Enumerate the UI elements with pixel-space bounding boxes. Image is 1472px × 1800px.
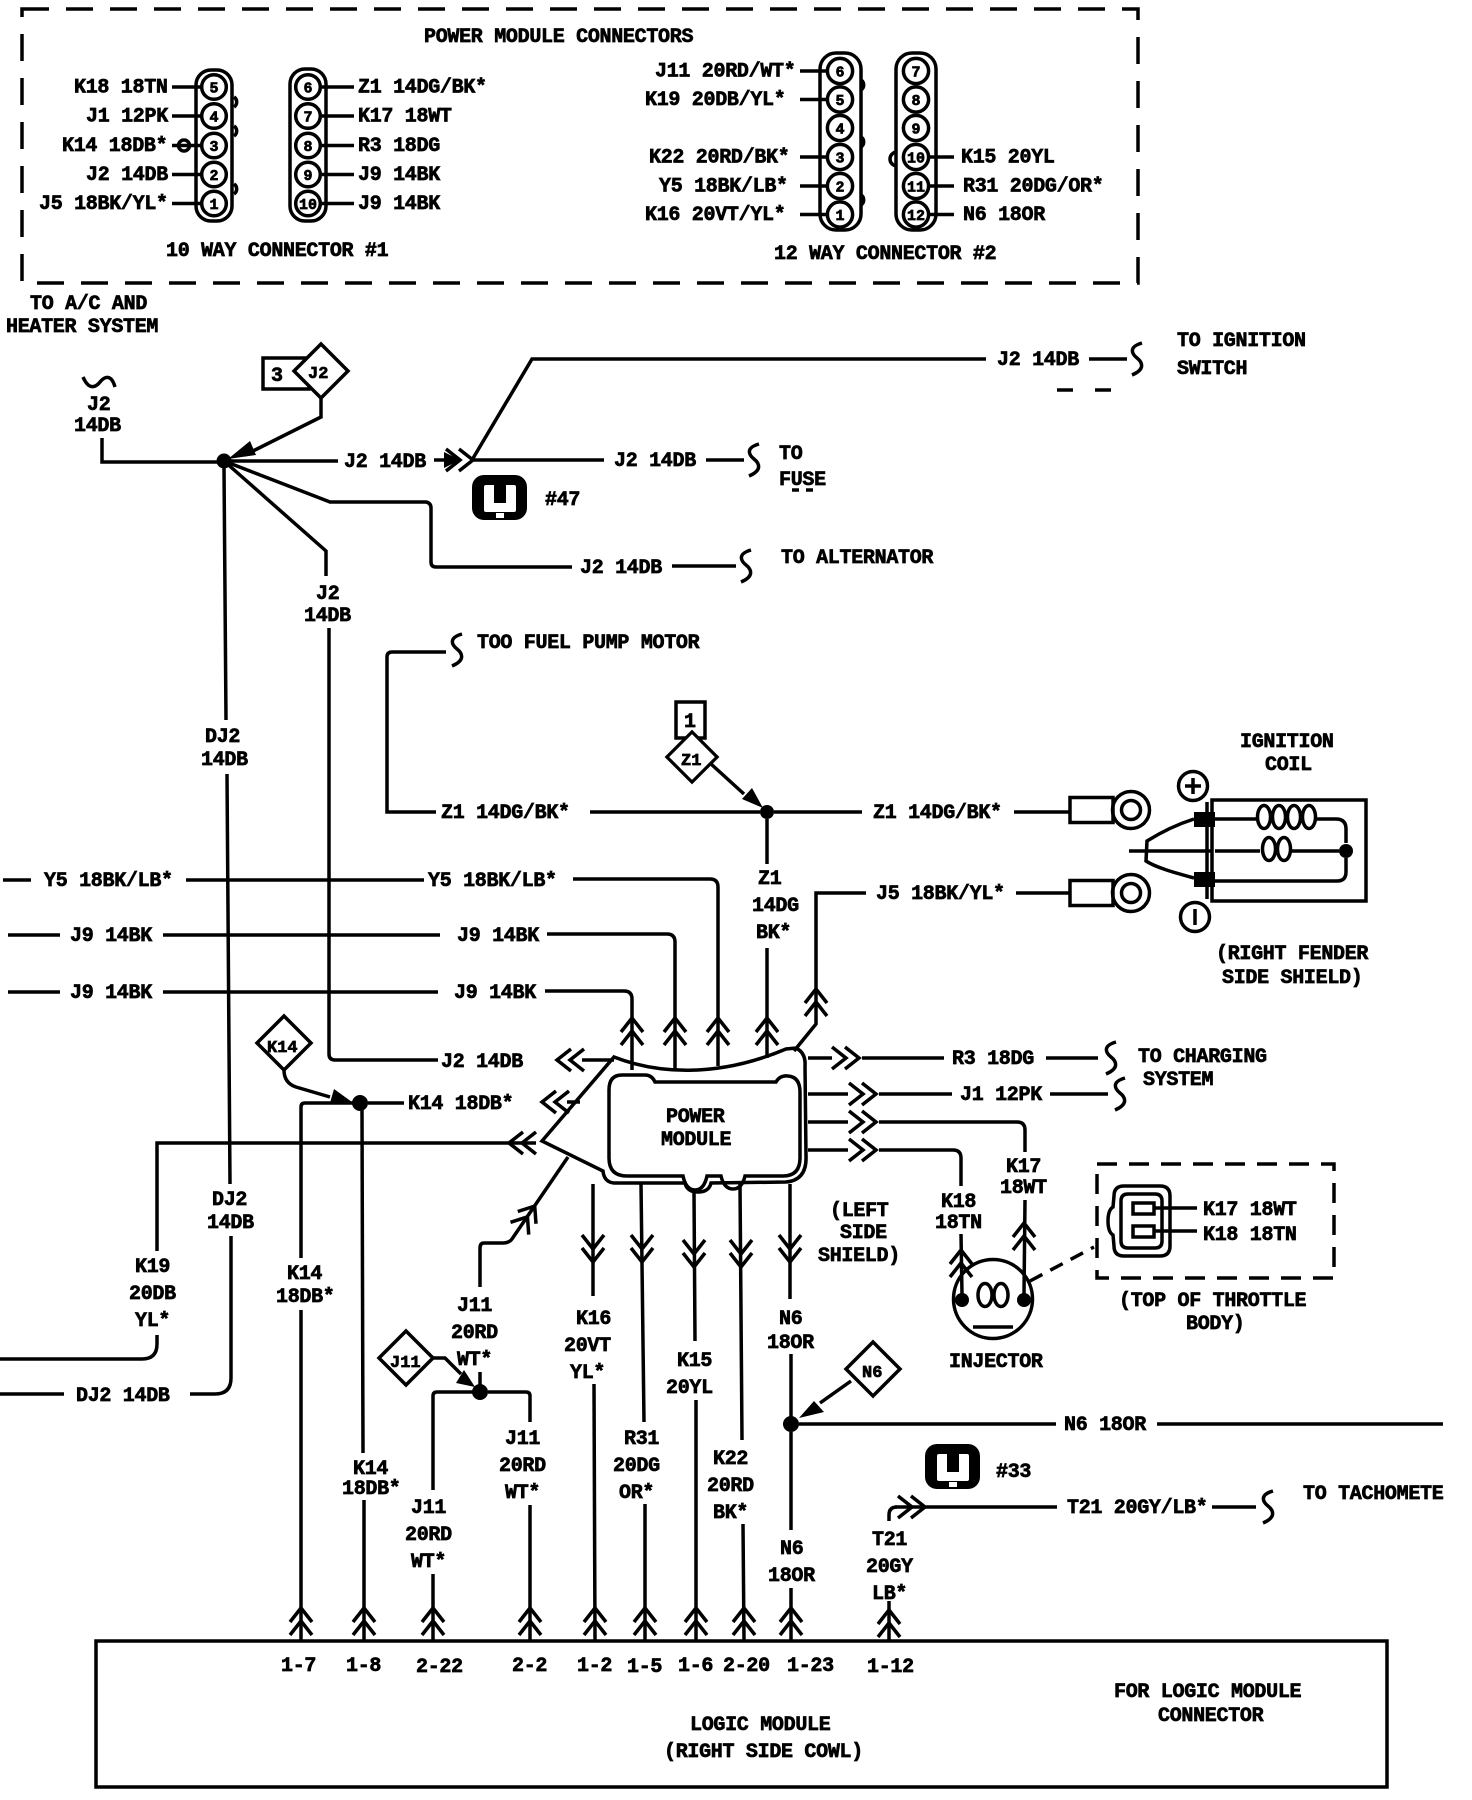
ignition coil minus terminal [1181, 903, 1210, 932]
wire Y5 row [3, 878, 31, 882]
chevron J11 2-22 at logic module [422, 1608, 444, 1635]
label T21 20GY/LB* [1067, 1497, 1207, 1520]
label J9 14BK [358, 193, 440, 216]
svg-text:K19 20DB/YL*: K19 20DB/YL* [645, 89, 785, 112]
svg-text:20YL: 20YL [666, 1377, 713, 1400]
wire Z1 label to junction [590, 810, 760, 814]
wire K14 junction to module [368, 1101, 404, 1105]
label #33 [996, 1461, 1031, 1484]
svg-text:J2 14DB: J2 14DB [580, 557, 662, 580]
label N6 18OR (above junction) [767, 1308, 814, 1355]
svg-text:5: 5 [836, 93, 845, 110]
label Z1 14DG/BK* (left) [441, 802, 570, 825]
wire junction to alternator [224, 461, 572, 567]
wire + break to ignition switch [1089, 343, 1142, 375]
pin 1-6 [678, 1655, 713, 1678]
svg-text:N6: N6 [862, 1364, 882, 1383]
wire + break R3 to charging [1046, 1042, 1116, 1074]
label K15 20YL [961, 147, 1055, 170]
power module outer shell [542, 1048, 806, 1192]
svg-text:R3 18DG: R3 18DG [952, 1048, 1034, 1071]
svg-text:K14 18DB*: K14 18DB* [62, 135, 167, 158]
stray dashes under FUSE [792, 488, 813, 492]
label T21 20GY LB* (column) [866, 1529, 913, 1606]
connector C1 strip A (pins 5-1) [196, 70, 237, 221]
label R3 18DG [358, 135, 440, 158]
connector C1 strip B (pins 6-10) [290, 69, 326, 221]
svg-text:18DB*: 18DB* [342, 1478, 401, 1501]
svg-text:T21: T21 [872, 1529, 907, 1552]
wire K14 left branch down (pin 1-7) [301, 1103, 360, 1258]
svg-text:J9 14BK: J9 14BK [70, 925, 152, 948]
dashed enclosure throttle body [1097, 1164, 1334, 1278]
pin 2-20 [723, 1655, 770, 1678]
pin 11 lead [930, 184, 954, 188]
svg-text:J1 12PK: J1 12PK [86, 106, 168, 129]
svg-text:12: 12 [907, 208, 925, 225]
wire J9 row2 mid [163, 990, 438, 994]
chevron K14 1-7 at logic module [290, 1608, 312, 1635]
pin 1-2 [577, 1655, 612, 1678]
wire R31 lower [643, 1504, 647, 1640]
label K14 18DB* (branch 1-7) [276, 1263, 335, 1309]
svg-text:20RD: 20RD [707, 1475, 754, 1498]
label J5 18BK/YL* [876, 883, 1005, 906]
locator square 3 [263, 358, 309, 389]
wire + break to fuse [706, 444, 759, 476]
note TO TACHOMETER [1303, 1483, 1444, 1506]
locator square 1 [676, 702, 705, 738]
pin 6 lead [800, 69, 827, 73]
svg-text:HEATER SYSTEM: HEATER SYSTEM [6, 316, 158, 339]
note LEFT SIDE SHIELD [818, 1200, 900, 1268]
label K18 18TN (column) [935, 1191, 982, 1235]
svg-text:R3 18DG: R3 18DG [358, 135, 440, 158]
svg-text:POWER: POWER [666, 1106, 725, 1129]
pin 8 lead wire [322, 144, 354, 148]
svg-text:N6: N6 [780, 1538, 803, 1561]
injector terminals [955, 1293, 1031, 1307]
wire DJ2 upper [224, 468, 226, 720]
svg-text:J5 18BK/YL*: J5 18BK/YL* [876, 883, 1005, 906]
pin 1-8 [346, 1655, 381, 1678]
svg-text:18OR: 18OR [767, 1332, 814, 1355]
chevron J5 [805, 989, 827, 1016]
wire J2 14DB right of junction [231, 459, 338, 463]
pin 5 lead wire [172, 85, 201, 89]
svg-text:14DB: 14DB [207, 1212, 254, 1235]
wire K14 left branch lower [299, 1310, 303, 1640]
wire K19 exit left [0, 1335, 157, 1359]
wire K17 to injector column [879, 1122, 1025, 1152]
wire T21 horizontal [895, 1505, 1057, 1509]
svg-text:6: 6 [304, 81, 313, 98]
wire diamond N6 to junction with arrow [799, 1381, 851, 1418]
svg-text:(TOP OF THROTTLE: (TOP OF THROTTLE [1119, 1290, 1307, 1313]
label J2 14DB (feeder) [304, 583, 351, 628]
svg-text:POWER MODULE CONNECTORS: POWER MODULE CONNECTORS [424, 26, 693, 49]
wire N6 lower to logic module [789, 1588, 793, 1640]
pin 10 lead wire [322, 202, 354, 206]
svg-text:20RD: 20RD [451, 1322, 498, 1345]
svg-text:J11: J11 [505, 1428, 540, 1451]
label N6 18OR (line) [1064, 1414, 1146, 1437]
pin 1 lead [800, 213, 827, 217]
chevron K19 out of module [509, 1132, 536, 1154]
ignition coil secondary winding [1215, 838, 1339, 861]
wire J1 [879, 1092, 952, 1096]
svg-text:J11 20RD/WT*: J11 20RD/WT* [655, 61, 795, 84]
lead K18 throttle [1154, 1229, 1197, 1233]
svg-text:7: 7 [304, 110, 313, 127]
pin 1-5 [627, 1656, 662, 1679]
injector coil [973, 1284, 1013, 1328]
node J2 junction [217, 454, 232, 469]
svg-text:18OR: 18OR [768, 1565, 815, 1588]
svg-text:K14: K14 [267, 1039, 298, 1058]
svg-text:5: 5 [210, 81, 219, 98]
svg-text:SWITCH: SWITCH [1177, 358, 1247, 381]
pin 1-23 [787, 1655, 834, 1678]
svg-text:N6 18OR: N6 18OR [963, 204, 1045, 227]
wire N6 long right (thick) [1157, 1422, 1443, 1426]
svg-text:DJ2: DJ2 [205, 726, 240, 749]
svg-text:J2 14DB: J2 14DB [86, 164, 168, 187]
pin numbers C2B [907, 65, 925, 226]
svg-text:CONNECTOR: CONNECTOR [1158, 1705, 1264, 1728]
svg-text:J9 14BK: J9 14BK [454, 982, 536, 1005]
label J9 14BK [358, 164, 440, 187]
svg-text:TOO FUEL PUMP MOTOR: TOO FUEL PUMP MOTOR [477, 632, 700, 655]
svg-text:K15 20YL: K15 20YL [961, 147, 1055, 170]
wire coil bottom loop [1215, 858, 1346, 881]
svg-text:8: 8 [304, 139, 313, 156]
svg-text:K14 18DB*: K14 18DB* [408, 1093, 513, 1116]
svg-text:J5 18BK/YL*: J5 18BK/YL* [39, 193, 168, 216]
label Y5 18BK/LB* (left) [44, 870, 173, 893]
svg-text:J2 14DB: J2 14DB [441, 1051, 523, 1074]
lead K17 throttle [1154, 1206, 1197, 1210]
pin 3 lead wire with loop [172, 140, 201, 151]
svg-text:OR*: OR* [619, 1482, 654, 1505]
ring terminal J5 [1070, 875, 1150, 912]
label K17 18WT [358, 106, 452, 129]
wire N6 column from module [788, 1184, 792, 1299]
svg-text:Y5 18BK/LB*: Y5 18BK/LB* [659, 176, 788, 199]
node coil junction [1339, 844, 1353, 858]
chevron J9 row1 [664, 1018, 686, 1045]
svg-text:1: 1 [836, 208, 845, 225]
wire K15 lower [694, 1400, 698, 1640]
svg-text:K19: K19 [135, 1256, 170, 1279]
label J5 18BK/YL* [39, 193, 168, 216]
chevron K18 up [950, 1250, 972, 1277]
svg-text:LOGIC MODULE: LOGIC MODULE [690, 1714, 831, 1737]
svg-text:SYSTEM: SYSTEM [1143, 1069, 1214, 1092]
svg-text:3: 3 [271, 365, 283, 388]
svg-text:SIDE SHIELD): SIDE SHIELD) [1222, 967, 1362, 990]
label DJ2 14DB (exit) [76, 1385, 170, 1408]
wire DJ2 middle [227, 774, 230, 1184]
label K19 20DB/YL* [645, 89, 785, 112]
svg-text:TO CHARGING: TO CHARGING [1138, 1046, 1267, 1069]
svg-text:3: 3 [210, 139, 219, 156]
svg-text:6: 6 [836, 65, 845, 82]
ring terminal Z1 [1070, 792, 1150, 829]
svg-text:18DB*: 18DB* [276, 1286, 335, 1309]
chevron R3 right [832, 1047, 859, 1069]
wire J2 feeder vertical [329, 628, 438, 1060]
svg-text:T21 20GY/LB*: T21 20GY/LB* [1067, 1497, 1207, 1520]
svg-text:10: 10 [907, 151, 925, 168]
wire R31 column (pin 1-5) [641, 1184, 644, 1422]
note TOO FUEL PUMP MOTOR [477, 632, 700, 655]
pin 9 lead wire [322, 173, 354, 177]
label J2 14DB (ignition) [997, 349, 1079, 372]
chevron T21 right [898, 1496, 925, 1518]
wire N6 below junction [789, 1432, 793, 1530]
label J2 14DB (module input) [441, 1051, 523, 1074]
wire J2 stub to junction [102, 438, 217, 462]
label K22 20RD BK* [707, 1448, 754, 1525]
svg-text:J2 14DB: J2 14DB [344, 451, 426, 474]
chevron N6 down [779, 1235, 801, 1262]
wire J9 row 1 [8, 933, 60, 937]
label R31 20DG/OR* [963, 176, 1103, 199]
svg-text:1-23: 1-23 [787, 1655, 834, 1678]
pin 7 lead wire [322, 114, 354, 118]
label K15 20YL [666, 1350, 713, 1400]
wire diamond K14 to junction with arrow [284, 1070, 352, 1103]
label J1 12PK [86, 106, 168, 129]
svg-text:8: 8 [912, 93, 921, 110]
label Y5 18BK/LB* [659, 176, 788, 199]
node N6 junction [783, 1416, 799, 1432]
chevron N6 at logic module [780, 1608, 802, 1635]
svg-text:(RIGHT FENDER: (RIGHT FENDER [1216, 943, 1368, 966]
wire T21 from logic module [889, 1507, 897, 1521]
wire R3 [862, 1056, 944, 1060]
svg-text:K16 20VT/YL*: K16 20VT/YL* [645, 204, 785, 227]
svg-text:20RD: 20RD [499, 1455, 546, 1478]
label K17 18WT (throttle) [1203, 1199, 1297, 1222]
wire K17 down to injector [1024, 1200, 1025, 1294]
pin 1-7 [281, 1655, 316, 1678]
label LOGIC MODULE [690, 1714, 831, 1737]
svg-text:Y5 18BK/LB*: Y5 18BK/LB* [44, 870, 173, 893]
chevron Y5 [707, 1018, 729, 1045]
wire J9 row1 to module [547, 934, 675, 1071]
note TO A/C AND HEATER SYSTEM [6, 293, 158, 339]
chevron J11 toward module [510, 1200, 543, 1235]
wire J9 row2 to module [545, 991, 632, 1070]
svg-text:FUSE: FUSE [779, 469, 826, 492]
wire Y5 mid [186, 878, 424, 882]
label J9 14BK (row1 left) [70, 925, 152, 948]
chevron K17 up [1013, 1223, 1035, 1250]
svg-text:J11: J11 [390, 1354, 421, 1373]
chevron K16 down [582, 1235, 604, 1262]
pin 4 lead wire [172, 114, 201, 118]
svg-text:J11: J11 [457, 1295, 492, 1318]
wire J11 right branch (pin 2-2) [488, 1392, 530, 1422]
svg-text:K16: K16 [576, 1308, 611, 1331]
svg-text:TO IGNITION: TO IGNITION [1177, 330, 1306, 353]
svg-text:14DG: 14DG [752, 895, 799, 918]
wire J11 left branch (pin 2-22) [433, 1392, 474, 1490]
locator diamond N6 [846, 1342, 900, 1396]
label J2 14DB (fuse) [614, 450, 696, 473]
svg-text:K18 18TN: K18 18TN [74, 77, 168, 100]
svg-text:2-20: 2-20 [723, 1655, 770, 1678]
svg-text:1-2: 1-2 [577, 1655, 612, 1678]
locator diamond J2 [294, 344, 348, 398]
svg-text:Z1 14DG/BK*: Z1 14DG/BK* [358, 77, 487, 100]
wire J11 label to junction [478, 1372, 482, 1387]
svg-text:J9 14BK: J9 14BK [457, 925, 539, 948]
label FOR LOGIC MODULE CONNECTOR [1114, 1681, 1302, 1728]
wire diagonal up to ignition line [472, 359, 986, 460]
wire + break to alternator [672, 550, 751, 582]
ignition coil plus terminal [1179, 772, 1208, 801]
svg-text:R31: R31 [624, 1428, 659, 1451]
node K14 junction [352, 1095, 368, 1111]
svg-text:J1 12PK: J1 12PK [960, 1084, 1042, 1107]
wire J9 row 2 [8, 990, 60, 994]
svg-text:K15: K15 [677, 1350, 712, 1373]
svg-text:18WT: 18WT [1000, 1177, 1047, 1200]
label J1 12PK [960, 1084, 1042, 1107]
svg-text:SIDE: SIDE [840, 1222, 887, 1245]
wire N6 to right [799, 1422, 1056, 1426]
svg-text:SHIELD): SHIELD) [818, 1245, 900, 1268]
label J9 14BK (row2 left) [70, 982, 152, 1005]
svg-text:J2 14DB: J2 14DB [997, 349, 1079, 372]
svg-text:20RD: 20RD [405, 1524, 452, 1547]
coil terminal blocks [1194, 812, 1215, 887]
svg-text:TO: TO [779, 443, 803, 466]
wire Y5 to module [573, 879, 718, 1066]
svg-text:9: 9 [304, 168, 313, 185]
svg-text:1: 1 [210, 197, 219, 214]
caption 12 WAY CONNECTOR #2 [774, 243, 996, 266]
svg-text:WT*: WT* [411, 1551, 446, 1574]
locator diamond J11 [379, 1331, 433, 1385]
pin 2 lead wire [172, 173, 201, 177]
svg-text:1-5: 1-5 [627, 1656, 662, 1679]
connector C2 strip B (pins 7-12) [890, 53, 936, 230]
svg-text:10: 10 [299, 197, 317, 214]
pin 5 lead [800, 98, 827, 102]
svg-text:2: 2 [836, 180, 845, 197]
svg-text:Z1 14DG/BK*: Z1 14DG/BK* [873, 802, 1002, 825]
svg-text:2-22: 2-22 [416, 1656, 463, 1679]
svg-text:R31 20DG/OR*: R31 20DG/OR* [963, 176, 1103, 199]
throttle connector plug [1108, 1186, 1170, 1256]
dashed enclosure: power module connectors [22, 9, 1138, 283]
svg-text:2-2: 2-2 [512, 1655, 547, 1678]
label J11 20RD/WT* [655, 61, 795, 84]
wire DJ2 exit left [0, 1236, 231, 1394]
power module inner case [609, 1075, 800, 1190]
label K16 20VT YL* [564, 1308, 611, 1385]
wire + break J1 to charging [1050, 1078, 1125, 1110]
label IGNITION COIL [1240, 731, 1334, 777]
label J11 20RD WT* (branch 2-22) [405, 1497, 452, 1574]
label J2 14DB (top left stub) [74, 394, 121, 438]
label K19 20DB YL* [129, 1256, 176, 1333]
pin numbers C1A [210, 81, 219, 215]
label J2 14DB [86, 164, 168, 187]
wire K15 column (pin 1-6) [694, 1192, 695, 1341]
svg-text:14DB: 14DB [74, 415, 121, 438]
wire diamond J2 to junction with arrow [228, 398, 321, 459]
svg-text:1-12: 1-12 [867, 1656, 914, 1679]
wire + break to tachometer [1212, 1491, 1273, 1523]
grommet #33 [925, 1444, 980, 1489]
svg-text:TO A/C AND: TO A/C AND [30, 293, 147, 316]
label K14 18DB* (branch 1-8) [342, 1458, 401, 1501]
wire K16 column (pin 1-2) [591, 1184, 595, 1296]
logic module box [96, 1641, 1387, 1787]
svg-text:#33: #33 [996, 1461, 1031, 1484]
svg-text:Z1: Z1 [758, 868, 782, 891]
svg-text:FOR LOGIC MODULE: FOR LOGIC MODULE [1114, 1681, 1302, 1704]
break to fuel pump [452, 634, 462, 666]
svg-text:J11: J11 [411, 1497, 446, 1520]
label K14 18DB* [62, 135, 167, 158]
svg-text:BK*: BK* [713, 1502, 748, 1525]
svg-text:20DG: 20DG [613, 1455, 660, 1478]
svg-text:K18 18TN: K18 18TN [1203, 1224, 1297, 1247]
wire J5 from module [794, 893, 866, 1051]
svg-text:DJ2: DJ2 [212, 1189, 247, 1212]
svg-text:J9 14BK: J9 14BK [358, 193, 440, 216]
label J9 14BK (row2 mid) [454, 982, 536, 1005]
node Z1 junction [760, 805, 774, 819]
dashed link injector to throttle connector [1030, 1247, 1094, 1281]
wire R3 from module [808, 1056, 832, 1060]
chevron K16 at logic module [584, 1608, 606, 1635]
label RIGHT SIDE COWL [664, 1741, 863, 1764]
svg-text:1: 1 [684, 711, 696, 734]
wire J11 2-22 lower [431, 1574, 435, 1640]
label Z1 14DG/BK* [358, 77, 487, 100]
svg-text:J2 14DB: J2 14DB [614, 450, 696, 473]
svg-text:#47: #47 [545, 489, 580, 512]
label K18 18TN (throttle) [1203, 1224, 1297, 1247]
label INJECTOR [949, 1351, 1043, 1374]
label K18 18TN [74, 77, 168, 100]
svg-text:K18: K18 [941, 1191, 976, 1214]
svg-text:K22 20RD/BK*: K22 20RD/BK* [649, 147, 789, 170]
svg-text:N6 18OR: N6 18OR [1064, 1414, 1146, 1437]
label K17 18WT (column) [1000, 1156, 1047, 1200]
svg-text:14DB: 14DB [201, 749, 248, 772]
label POWER MODULE [661, 1106, 732, 1152]
coil tower horn [1129, 819, 1212, 878]
svg-text:11: 11 [907, 180, 925, 197]
svg-text:BK*: BK* [756, 922, 791, 945]
pin 12 lead [930, 213, 954, 217]
pin 10 lead [930, 155, 954, 159]
chevron K14 1-8 at logic module [353, 1608, 375, 1635]
wire J11 2-2 lower [528, 1505, 532, 1640]
label K22 20RD/BK* [649, 147, 789, 170]
svg-text:INJECTOR: INJECTOR [949, 1351, 1043, 1374]
wire diamond J11 to junction with arrow [432, 1358, 475, 1387]
svg-text:7: 7 [912, 65, 921, 82]
